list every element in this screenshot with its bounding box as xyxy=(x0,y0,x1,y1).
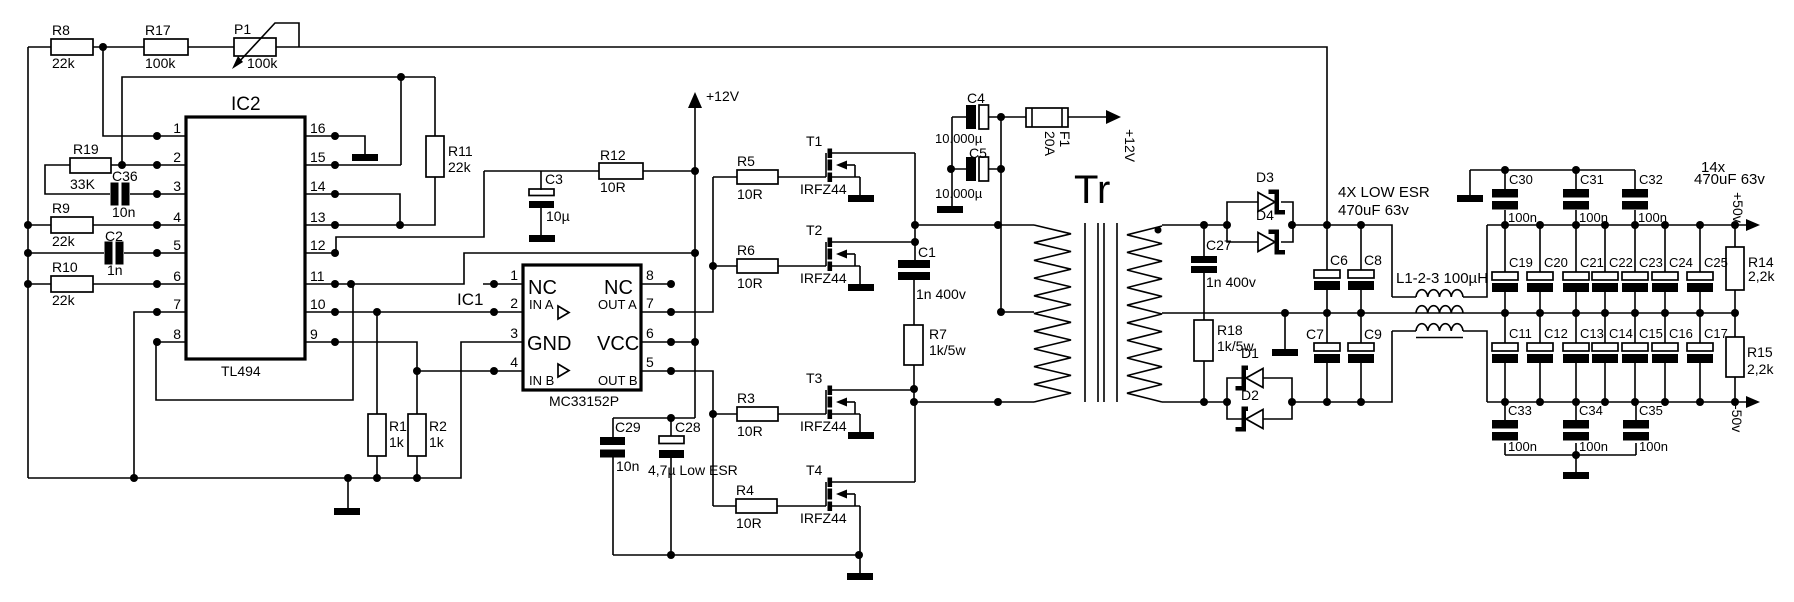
capacitor C24 xyxy=(1664,225,1666,313)
svg-text:1: 1 xyxy=(173,120,181,136)
capacitor C32 xyxy=(1634,170,1636,225)
wire T4 source extension to ground line xyxy=(859,524,861,573)
svg-text:22k: 22k xyxy=(52,233,76,249)
capacitor C27 snubber xyxy=(1203,225,1205,320)
svg-text:T2: T2 xyxy=(806,222,823,238)
svg-text:VCC: VCC xyxy=(597,333,639,355)
op-amp/PWM IC2 TL494 box xyxy=(186,117,305,359)
svg-text:OUT B: OUT B xyxy=(598,373,638,388)
svg-text:IC1: IC1 xyxy=(457,290,483,309)
driver IC1 MC33152P box xyxy=(523,265,641,390)
svg-text:12: 12 xyxy=(310,237,326,253)
svg-text:R9: R9 xyxy=(52,200,70,216)
svg-text:10R: 10R xyxy=(736,515,762,531)
svg-text:NC: NC xyxy=(528,277,557,299)
resistor R3 xyxy=(713,413,826,415)
svg-text:R2: R2 xyxy=(429,418,447,434)
capacitor C7 xyxy=(1326,313,1328,402)
capacitor C30 xyxy=(1504,170,1506,225)
svg-text:14: 14 xyxy=(310,178,326,194)
svg-text:+12V: +12V xyxy=(1122,129,1138,163)
svg-text:C7: C7 xyxy=(1306,326,1324,342)
wire T1/T2 drain bus down to C1 xyxy=(914,153,916,260)
svg-text:20A: 20A xyxy=(1042,131,1058,157)
svg-text:R12: R12 xyxy=(600,147,626,163)
svg-text:-50v: -50v xyxy=(1729,405,1745,432)
svg-text:C35: C35 xyxy=(1639,403,1663,418)
svg-text:1k: 1k xyxy=(389,434,405,450)
svg-text:MC33152P: MC33152P xyxy=(549,393,619,409)
svg-text:C24: C24 xyxy=(1669,255,1693,270)
svg-text:4,7µ Low ESR: 4,7µ Low ESR xyxy=(648,462,738,478)
ground symbol center tap xyxy=(1284,313,1286,349)
svg-text:10µ: 10µ xyxy=(546,208,570,224)
resistor R9 xyxy=(51,217,93,233)
wire +50 rectified line to C6/C8 xyxy=(1292,225,1392,297)
wire IC2 pin 15 stub xyxy=(305,164,401,166)
svg-text:11: 11 xyxy=(310,268,325,284)
wire IC2 pin 14 to pin 13 xyxy=(305,194,400,225)
resistor R10 xyxy=(51,276,93,292)
svg-text:R8: R8 xyxy=(52,22,70,38)
svg-text:100n: 100n xyxy=(1579,439,1608,454)
svg-text:3: 3 xyxy=(510,325,518,341)
wire top feedback net from R8/P1 to +50V rail xyxy=(28,47,1327,225)
svg-text:D3: D3 xyxy=(1256,169,1274,185)
svg-text:C19: C19 xyxy=(1509,255,1533,270)
capacitor C14 xyxy=(1604,313,1606,402)
svg-text:1n: 1n xyxy=(107,262,123,278)
capacitor C33 xyxy=(1504,402,1506,455)
capacitor C23 xyxy=(1634,225,1636,313)
svg-text:2,2k: 2,2k xyxy=(1748,268,1775,284)
resistor R5 xyxy=(713,176,826,178)
svg-text:C16: C16 xyxy=(1669,326,1693,341)
transistor T4 IRFZ44 xyxy=(826,478,915,525)
wire C4/C5 right leg +12V to primary center tap xyxy=(1001,117,1034,312)
transistor T1 IRFZ44 xyxy=(826,149,915,196)
svg-text:C30: C30 xyxy=(1509,172,1533,187)
resistor R15 xyxy=(1734,313,1736,402)
svg-text:5: 5 xyxy=(173,237,181,253)
svg-text:R10: R10 xyxy=(52,259,78,275)
svg-text:2: 2 xyxy=(510,295,518,311)
capacitor C11 xyxy=(1504,313,1506,402)
svg-text:C4: C4 xyxy=(967,90,985,106)
capacitor C5 xyxy=(952,168,1001,170)
capacitor C25 xyxy=(1699,225,1701,313)
svg-text:OUT A: OUT A xyxy=(598,297,637,312)
svg-text:10n: 10n xyxy=(112,204,135,220)
svg-text:470uF 63v: 470uF 63v xyxy=(1338,202,1409,219)
svg-text:F1: F1 xyxy=(1057,131,1073,148)
capacitor C34 xyxy=(1575,402,1577,455)
wire R12 line net xyxy=(484,170,695,172)
ground symbol C3 xyxy=(529,235,555,242)
svg-text:C25: C25 xyxy=(1704,255,1728,270)
svg-text:R4: R4 xyxy=(736,482,754,498)
ground symbol C4/C5 xyxy=(937,206,963,213)
capacitor C1 snubber xyxy=(898,260,930,268)
svg-text:Tr: Tr xyxy=(1074,168,1110,212)
capacitor C12 xyxy=(1539,313,1541,402)
wire IC2 pin 8 down and over to pin 11 xyxy=(156,284,353,400)
wire IC2 pin 13 to R11 bottom xyxy=(305,177,435,225)
svg-text:T4: T4 xyxy=(806,462,823,478)
wire drain bus to primary top xyxy=(915,224,1034,226)
wire IC2 pin 7 to ground rail xyxy=(134,312,186,478)
svg-text:C2: C2 xyxy=(105,228,123,244)
ground symbol T1 source xyxy=(848,195,874,202)
wire C4/C5 left leg to ground xyxy=(951,117,953,206)
inductor L2 xyxy=(1416,306,1463,313)
svg-text:TL494: TL494 xyxy=(221,363,261,379)
capacitor C22 xyxy=(1604,225,1606,313)
svg-text:10: 10 xyxy=(310,296,326,312)
svg-text:6: 6 xyxy=(646,325,654,341)
wire IC1 pin 1 stub xyxy=(483,283,523,285)
svg-text:10R: 10R xyxy=(737,186,763,202)
svg-text:IC2: IC2 xyxy=(231,94,261,115)
wire +50V output rail xyxy=(1487,224,1752,226)
ground symbol pin16 xyxy=(352,154,378,161)
transformer secondary winding xyxy=(1127,226,1162,402)
transistor T3 IRFZ44 xyxy=(826,386,915,433)
svg-text:R17: R17 xyxy=(145,22,171,38)
ground rail wire at bottom left xyxy=(28,342,523,478)
wire secondary center tap line xyxy=(1162,312,1416,314)
svg-text:4: 4 xyxy=(173,209,181,225)
svg-text:100n: 100n xyxy=(1579,210,1608,225)
capacitor C9 xyxy=(1360,313,1362,402)
svg-text:10.000µ: 10.000µ xyxy=(935,131,983,146)
node on feedback bus to pin 15 xyxy=(397,73,405,81)
wire IC2 pin 12 up to R12/C3 node xyxy=(305,171,484,253)
diode D3 xyxy=(1227,202,1293,225)
capacitor C17 xyxy=(1699,313,1701,402)
transformer core xyxy=(1085,223,1117,402)
resistor R12 xyxy=(599,163,643,179)
resistor R4 xyxy=(713,505,826,507)
wire IC1 pin 8 stub xyxy=(641,283,671,285)
wire IC1 pin 5 OUT B to R3/R4 xyxy=(641,371,713,506)
svg-text:15: 15 xyxy=(310,149,326,165)
svg-text:C21: C21 xyxy=(1580,255,1604,270)
ground symbol C33 bus xyxy=(1575,455,1577,472)
svg-text:T3: T3 xyxy=(806,370,823,386)
resistor R7 xyxy=(904,325,923,365)
wire bottom gate-driver ground line to T4 source xyxy=(613,554,859,556)
svg-text:R11: R11 xyxy=(448,143,473,159)
capacitor C21 xyxy=(1575,225,1577,313)
wire drain bus to primary bottom xyxy=(914,401,1034,403)
svg-text:+12V: +12V xyxy=(706,88,740,104)
wire -50 rectified line to C7/C9 xyxy=(1292,331,1392,402)
wire R9 net xyxy=(28,224,186,226)
svg-text:R1: R1 xyxy=(389,418,407,434)
node junction R8/R17 xyxy=(99,43,107,51)
ground symbol below rail xyxy=(347,478,349,508)
capacitor C6 xyxy=(1326,225,1328,313)
wire R19 left bracket to C36 xyxy=(45,165,110,194)
wire IN B to IC1 pin 4 xyxy=(417,370,523,372)
svg-text:IN A: IN A xyxy=(529,297,554,312)
svg-text:R3: R3 xyxy=(737,390,755,406)
ground symbol T4 source xyxy=(847,573,873,580)
capacitor C16 xyxy=(1664,313,1666,402)
wire T4 drain up to bus xyxy=(914,402,916,482)
svg-text:C22: C22 xyxy=(1609,255,1633,270)
svg-text:C8: C8 xyxy=(1364,252,1382,268)
svg-text:16: 16 xyxy=(310,120,326,136)
resistor R19 xyxy=(70,158,111,173)
svg-text:1k/5w: 1k/5w xyxy=(929,342,966,358)
svg-text:100n: 100n xyxy=(1508,210,1537,225)
wire +12V vertical rail xyxy=(694,106,696,418)
svg-text:R6: R6 xyxy=(737,242,755,258)
svg-text:1n 400v: 1n 400v xyxy=(1206,274,1256,290)
wire secondary top to rectifier xyxy=(1162,224,1227,226)
svg-text:IRFZ44: IRFZ44 xyxy=(800,418,847,434)
svg-text:2,2k: 2,2k xyxy=(1747,361,1774,377)
capacitor C8 xyxy=(1360,225,1362,313)
svg-text:D2: D2 xyxy=(1241,387,1259,403)
capacitor C31 xyxy=(1575,170,1577,225)
svg-text:1n 400v: 1n 400v xyxy=(916,286,966,302)
svg-text:C27: C27 xyxy=(1206,237,1232,253)
wire IC2 pin 10 to IC1 pin 2 IN A xyxy=(305,311,523,313)
wire decoupling line C29/C28 to +12V rail xyxy=(613,417,695,419)
svg-text:22k: 22k xyxy=(448,159,472,175)
svg-text:P1: P1 xyxy=(234,21,251,37)
svg-text:8: 8 xyxy=(646,267,654,283)
wire -50V output rail xyxy=(1487,401,1752,403)
svg-text:33K: 33K xyxy=(70,176,96,192)
ground symbol T2 source xyxy=(848,284,874,291)
diode D1 xyxy=(1227,378,1292,402)
wire C33-C35 bottom bus xyxy=(1505,454,1636,456)
svg-text:1: 1 xyxy=(510,267,518,283)
capacitor C4 xyxy=(952,116,1026,118)
+12V arrow symbol xyxy=(688,92,702,108)
svg-text:NC: NC xyxy=(604,277,633,299)
svg-text:100n: 100n xyxy=(1638,210,1667,225)
resistor R17 xyxy=(144,39,188,55)
svg-text:4X LOW ESR: 4X LOW ESR xyxy=(1338,184,1430,201)
phase dot secondary xyxy=(1155,227,1162,234)
svg-text:C15: C15 xyxy=(1639,326,1663,341)
wire C36 right to IC2 pin 3 xyxy=(130,193,186,195)
wire pin1 net from R8/R17 junction down to IC2 pin 1 xyxy=(103,47,186,136)
svg-text:T1: T1 xyxy=(806,133,823,149)
resistor R18 xyxy=(1194,320,1213,361)
svg-text:7: 7 xyxy=(646,295,654,311)
wire pin2/C36 node up-over to pin15 and R11 top xyxy=(122,77,435,165)
svg-text:10n: 10n xyxy=(616,458,639,474)
svg-text:R19: R19 xyxy=(73,141,99,157)
svg-text:R7: R7 xyxy=(929,326,947,342)
wire IC1 pin 7 OUT A to R5/R6 xyxy=(641,177,713,312)
svg-text:R15: R15 xyxy=(1747,344,1773,360)
wire C30-C32 top bus xyxy=(1470,170,1635,195)
svg-text:C28: C28 xyxy=(675,419,701,435)
ground rail junction dots xyxy=(344,474,352,482)
svg-text:C12: C12 xyxy=(1544,326,1568,341)
svg-text:470uF 63v: 470uF 63v xyxy=(1694,171,1765,188)
svg-text:C29: C29 xyxy=(615,419,641,435)
wire secondary bottom to rectifier xyxy=(1162,401,1227,403)
svg-text:IRFZ44: IRFZ44 xyxy=(800,181,847,197)
IC1 buffer triangle A xyxy=(558,306,569,319)
transformer primary winding xyxy=(1034,225,1071,402)
svg-text:R5: R5 xyxy=(737,153,755,169)
transistor T2 IRFZ44 xyxy=(826,238,915,285)
capacitor C13 xyxy=(1575,313,1577,402)
node pin2 junction xyxy=(118,161,126,169)
svg-text:6: 6 xyxy=(173,268,181,284)
svg-text:C23: C23 xyxy=(1639,255,1663,270)
wire left vertical rail down to ground rail xyxy=(27,47,29,478)
svg-text:7: 7 xyxy=(173,296,181,312)
svg-text:5: 5 xyxy=(646,354,654,370)
resistor R1 xyxy=(376,312,378,478)
svg-text:C36: C36 xyxy=(112,168,138,184)
capacitor C20 xyxy=(1539,225,1541,313)
ground symbol C30 bus xyxy=(1457,195,1483,202)
capacitor C15 xyxy=(1634,313,1636,402)
svg-text:100n: 100n xyxy=(1639,439,1668,454)
wire C2 net xyxy=(28,252,186,254)
svg-text:22k: 22k xyxy=(52,55,76,71)
wire mid ground line right section xyxy=(1463,312,1735,314)
wire R7 bottom to T3/T4 drain bus xyxy=(913,365,915,402)
svg-text:C13: C13 xyxy=(1580,326,1604,341)
ground symbol T3 source xyxy=(848,432,874,439)
svg-text:C32: C32 xyxy=(1639,172,1663,187)
resistor R2 xyxy=(416,456,418,478)
svg-text:2: 2 xyxy=(173,149,181,165)
svg-text:C17: C17 xyxy=(1704,326,1728,341)
diode D4 xyxy=(1227,225,1293,242)
wire IC2 pin 11 to +12V vertical xyxy=(305,253,695,284)
svg-text:4: 4 xyxy=(510,354,518,370)
svg-text:D1: D1 xyxy=(1241,345,1259,361)
svg-text:C14: C14 xyxy=(1609,326,1633,341)
capacitor C35 xyxy=(1635,402,1637,455)
wire IC2 pin 16 to ground xyxy=(305,136,365,154)
svg-text:IN B: IN B xyxy=(529,373,554,388)
wire R19 right to IC2 pin 2 xyxy=(111,164,186,166)
svg-text:13: 13 xyxy=(310,209,326,225)
svg-text:100k: 100k xyxy=(247,55,278,71)
svg-text:22k: 22k xyxy=(52,292,76,308)
capacitor C19 xyxy=(1504,225,1506,313)
svg-text:C5: C5 xyxy=(969,145,987,161)
svg-text:D4: D4 xyxy=(1256,207,1274,223)
svg-text:GND: GND xyxy=(527,333,571,355)
svg-text:8: 8 xyxy=(173,326,181,342)
wire IC1 pin 6 VCC to +12V rail xyxy=(641,341,695,343)
wire C1 to R7 xyxy=(913,280,915,325)
svg-text:C33: C33 xyxy=(1508,403,1532,418)
svg-text:C6: C6 xyxy=(1330,252,1348,268)
potentiometer P1 xyxy=(234,38,276,56)
svg-text:C9: C9 xyxy=(1364,326,1382,342)
svg-text:3: 3 xyxy=(173,178,181,194)
svg-text:IRFZ44: IRFZ44 xyxy=(800,270,847,286)
diode D2 xyxy=(1227,402,1292,419)
svg-text:10.000µ: 10.000µ xyxy=(935,186,983,201)
wire F1 to +12V input arrow xyxy=(1068,116,1107,118)
capacitor C36 xyxy=(111,183,130,206)
svg-text:10R: 10R xyxy=(600,179,626,195)
fuse F1 xyxy=(1026,108,1068,127)
svg-text:R18: R18 xyxy=(1217,322,1243,338)
inductor L3 xyxy=(1392,331,1487,402)
resistor R6 xyxy=(713,265,826,267)
svg-text:9: 9 xyxy=(310,326,318,342)
svg-text:C20: C20 xyxy=(1544,255,1568,270)
resistor R8 xyxy=(51,39,93,55)
svg-text:C34: C34 xyxy=(1579,403,1603,418)
capacitor C3 xyxy=(540,171,542,235)
capacitor C2 xyxy=(105,242,124,265)
svg-text:C11: C11 xyxy=(1509,326,1532,341)
svg-text:10R: 10R xyxy=(737,275,763,291)
svg-text:C3: C3 xyxy=(545,171,563,187)
resistor R14 xyxy=(1734,225,1736,313)
svg-text:C1: C1 xyxy=(918,244,936,260)
svg-text:100k: 100k xyxy=(145,55,176,71)
svg-text:+50v: +50v xyxy=(1730,192,1746,223)
inductor L1 xyxy=(1392,225,1487,297)
IC1 buffer triangle B xyxy=(558,364,569,377)
capacitor C28 xyxy=(670,418,672,555)
resistor R11 xyxy=(426,136,444,177)
svg-text:10R: 10R xyxy=(737,423,763,439)
capacitor C29 xyxy=(612,418,614,555)
svg-text:IRFZ44: IRFZ44 xyxy=(800,510,847,526)
svg-text:1k: 1k xyxy=(429,434,445,450)
wire IC2 pin 9 down to R2 and IN B xyxy=(305,342,417,414)
svg-text:100n: 100n xyxy=(1508,439,1537,454)
svg-text:L1-2-3 100µH: L1-2-3 100µH xyxy=(1396,270,1488,287)
wire R10 net xyxy=(28,283,186,285)
svg-text:C31: C31 xyxy=(1580,172,1604,187)
